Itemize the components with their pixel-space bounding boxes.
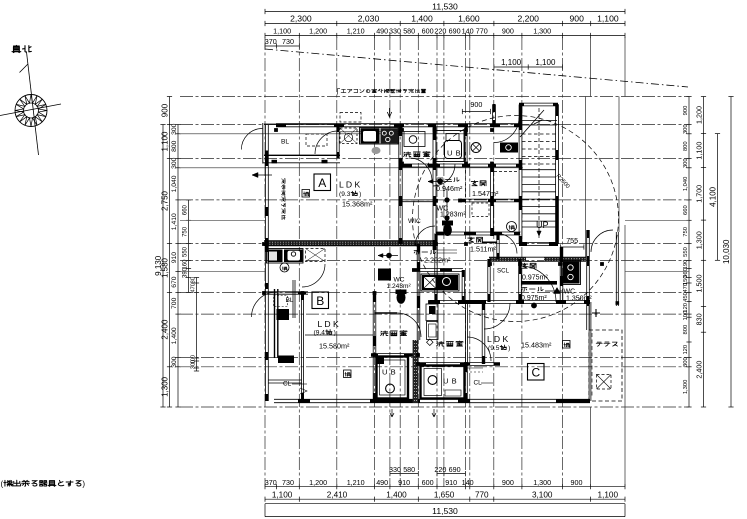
svg-text:910: 910 [171,252,178,264]
svg-text:1.283m²: 1.283m² [440,212,466,219]
svg-text:U B: U B [447,149,461,158]
svg-text:300: 300 [171,123,178,135]
svg-text:A: A [318,176,326,190]
svg-text:1,100: 1,100 [598,490,619,499]
svg-text:L D K: L D K [318,319,339,329]
svg-text:1,400: 1,400 [411,14,433,24]
svg-text:11,530: 11,530 [432,2,458,12]
svg-text:1,500: 1,500 [694,275,703,293]
svg-text:470: 470 [683,283,689,293]
svg-text:550: 550 [182,246,188,257]
svg-text:660: 660 [182,204,188,215]
svg-text:1.547m²: 1.547m² [472,189,499,198]
svg-text:580: 580 [403,465,415,474]
svg-text:2,300: 2,300 [290,14,312,24]
svg-text:300: 300 [171,356,178,368]
svg-text:1,400: 1,400 [171,327,178,344]
svg-text:1,650: 1,650 [434,490,455,499]
svg-text:190: 190 [683,260,689,270]
svg-text:580: 580 [403,27,415,36]
svg-text:): ) [82,480,85,489]
svg-text:(9.4: (9.4 [314,330,326,337]
svg-text:800: 800 [171,140,178,152]
svg-text:900: 900 [502,27,514,36]
svg-text:1.243m²: 1.243m² [387,283,412,290]
svg-text:2,400: 2,400 [694,361,703,379]
svg-text:1,300: 1,300 [160,376,169,397]
svg-text:2,410: 2,410 [327,490,348,499]
svg-text:UP: UP [536,220,549,230]
svg-text:15.580m²: 15.580m² [319,342,350,351]
svg-text:730: 730 [282,478,294,487]
svg-text:220: 220 [434,465,446,474]
svg-text:2.202m²: 2.202m² [424,256,451,265]
svg-text:900: 900 [502,478,514,487]
svg-text:140: 140 [462,27,474,36]
svg-text:1,400: 1,400 [386,490,407,499]
svg-text:B: B [316,294,324,308]
svg-text:(: ( [1,480,4,489]
svg-text:750: 750 [182,226,188,237]
svg-text:CL: CL [474,380,483,387]
svg-text:BL: BL [281,139,289,146]
svg-text:600: 600 [422,478,434,487]
svg-text:670: 670 [171,276,178,288]
svg-text:1,200: 1,200 [309,27,327,36]
svg-text:300: 300 [171,157,178,169]
svg-text:10,030: 10,030 [722,239,731,264]
svg-text:450: 450 [683,292,689,302]
svg-text:1,300: 1,300 [683,380,689,395]
svg-text:370: 370 [265,37,277,46]
svg-text:2,400: 2,400 [160,319,169,340]
svg-text:600: 600 [422,27,434,36]
svg-text:490: 490 [376,478,388,487]
svg-text:910: 910 [445,478,457,487]
svg-text:800: 800 [683,141,689,151]
svg-text:100: 100 [683,311,689,321]
svg-text:1,100: 1,100 [694,142,703,160]
svg-text:300: 300 [190,360,196,369]
svg-text:0.975m²: 0.975m² [522,275,548,282]
svg-text:2,030: 2,030 [358,14,380,24]
svg-text:0.946m²: 0.946m² [436,184,463,193]
svg-text:2,200: 2,200 [517,14,539,24]
svg-text:300: 300 [683,357,689,367]
svg-text:1,040: 1,040 [683,177,689,192]
svg-text:220: 220 [434,27,446,36]
svg-text:330: 330 [389,27,401,36]
svg-text:755: 755 [566,236,578,245]
svg-text:15.368m²: 15.368m² [342,200,373,209]
svg-text:CL: CL [283,381,292,388]
svg-text:C: C [531,366,540,380]
svg-text:1,200: 1,200 [694,106,703,124]
svg-text:1,200: 1,200 [309,478,327,487]
svg-text:550: 550 [683,247,689,257]
svg-text:1,100: 1,100 [272,490,293,499]
svg-text:1,040: 1,040 [171,175,178,192]
svg-text:690: 690 [449,27,461,36]
svg-text:1,100: 1,100 [597,14,619,24]
svg-text:): ) [508,345,510,352]
svg-text:0.975m²: 0.975m² [521,295,547,302]
svg-text:1,210: 1,210 [347,27,365,36]
svg-text:15.483m²: 15.483m² [521,341,552,350]
svg-text:750: 750 [683,227,689,237]
svg-text:770: 770 [475,490,489,499]
svg-text:WC: WC [564,289,576,296]
svg-text:1,300: 1,300 [694,231,703,249]
svg-text:SCL: SCL [497,268,510,275]
svg-text:490: 490 [376,27,388,36]
svg-text:300: 300 [683,124,689,134]
svg-text:U B: U B [443,377,457,386]
svg-text:(9.5: (9.5 [488,345,500,352]
svg-text:1,300: 1,300 [533,478,551,487]
svg-text:1.350m²: 1.350m² [566,296,592,303]
svg-text:1,700: 1,700 [694,185,703,203]
svg-text:1,100: 1,100 [501,58,522,67]
svg-text:900: 900 [160,103,169,117]
svg-text:11,530: 11,530 [432,506,458,516]
svg-text:L D K: L D K [339,180,360,190]
svg-text:120: 120 [683,345,689,355]
svg-text:690: 690 [449,465,461,474]
svg-text:1,100: 1,100 [160,131,169,152]
svg-text:300: 300 [683,158,689,168]
svg-text:830: 830 [694,313,703,325]
svg-text:900: 900 [470,100,482,109]
svg-text:900: 900 [683,106,689,116]
svg-text:BL: BL [286,297,294,304]
svg-text:1,580: 1,580 [160,257,169,278]
svg-text:800: 800 [683,325,689,335]
svg-text:4,100: 4,100 [708,186,717,207]
svg-text:330: 330 [389,465,401,474]
svg-text:700: 700 [171,297,178,309]
svg-text:390: 390 [182,267,188,278]
svg-text:770: 770 [476,27,488,36]
svg-text:U B: U B [382,368,396,377]
svg-text:80: 80 [190,277,196,283]
svg-text:): ) [334,330,336,337]
svg-text:1,300: 1,300 [533,27,551,36]
svg-text:470: 470 [190,283,196,292]
svg-text:370: 370 [265,478,277,487]
svg-text:140: 140 [462,478,474,487]
svg-text:(9.3: (9.3 [339,191,351,198]
svg-text:1,410: 1,410 [171,213,178,230]
svg-text:900: 900 [571,478,583,487]
svg-text:730: 730 [282,37,294,46]
svg-text:1,210: 1,210 [347,478,365,487]
svg-text:WIC: WIC [408,218,421,225]
svg-text:1.511m²: 1.511m² [470,245,496,254]
svg-text:1,100: 1,100 [273,27,291,36]
svg-text:L D K: L D K [487,334,508,344]
svg-text:1,100: 1,100 [535,58,556,67]
svg-text:): ) [359,191,361,198]
svg-text:660: 660 [683,205,689,215]
svg-text:2,750: 2,750 [160,190,169,211]
svg-text:3,100: 3,100 [532,490,553,499]
svg-text:900: 900 [570,14,585,24]
svg-text:1,600: 1,600 [458,14,480,24]
